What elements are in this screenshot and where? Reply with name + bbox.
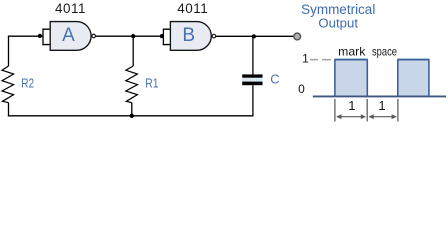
op-gate U1B NAND body [170,22,211,51]
wire: bottom rail [8,115,254,117]
guide line mark left [334,99,336,122]
svg-text:4011: 4011 [177,1,208,16]
capacitor C bottom plate [242,82,262,86]
svg-text:C: C [270,72,279,87]
terminal: output [294,33,301,40]
wire: left rail vertical down to R2 [8,36,10,67]
level-1 dash 1 [310,59,318,61]
waveform pulse 1 fill [336,60,367,95]
node: junction dot R1 bottom [130,114,134,118]
gate B output bubble [212,34,216,38]
guide line mark right [366,99,368,122]
wire: gate A input stubs [42,29,50,44]
waveform pulse 2 fill [399,60,429,95]
wire: gate A input tie bar [42,29,44,46]
node: junction dot above R1 [131,34,135,38]
wire: gate A input from left rail [9,35,44,37]
wire: R1 top lead [132,36,134,66]
svg-text:R1: R1 [145,76,158,91]
wire: C bottom lead [252,85,254,116]
node: junction dot above C [252,34,256,38]
wire: gate B input stubs [163,29,171,44]
svg-text:R2: R2 [21,76,34,91]
svg-text:0: 0 [298,82,305,96]
svg-text:Symmetrical: Symmetrical [301,2,375,17]
resistor R1 zigzag [126,66,138,103]
svg-text:1: 1 [378,98,385,113]
svg-text:Output: Output [318,16,358,31]
arrow mark duration [337,116,365,118]
svg-text:space: space [372,45,397,59]
wire: gate B output to terminal [216,35,293,37]
capacitor C gap fill [242,78,262,82]
op-gate U1A NAND body [50,22,91,51]
resistor R2 zigzag [2,66,14,103]
gate A output bubble [92,34,96,38]
svg-text:mark: mark [338,45,366,59]
waveform pulse 2 outline [397,60,399,97]
wire: R2 bottom lead [8,103,10,117]
svg-text:1: 1 [302,52,309,66]
svg-text:4011: 4011 [55,1,86,16]
svg-text:B: B [182,25,195,46]
arrow space duration [369,116,396,118]
wire: gate A output to gate B input [96,35,164,37]
wire: C top lead [252,36,254,74]
capacitor C top plate [242,74,262,77]
svg-text:A: A [62,25,75,46]
level-1 dash 2 [322,59,331,61]
wire: gate B input tie bar [162,29,164,46]
node: gate B inputs junction dot [160,34,164,38]
guide line space right [397,99,399,122]
waveform baseline [313,95,446,97]
node: gate A inputs junction dot [38,34,42,38]
svg-text:1: 1 [348,98,355,113]
waveform pulse 1 outline [334,60,336,97]
wire: R1 bottom lead [131,103,133,116]
